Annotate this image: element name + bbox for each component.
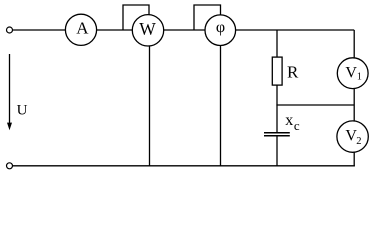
svg-text:x: x xyxy=(285,112,293,129)
svg-text:φ: φ xyxy=(216,19,225,36)
wire bottom bus xyxy=(13,165,355,167)
voltmeter V1 xyxy=(337,58,368,89)
ammeter A xyxy=(65,14,96,45)
svg-text:1: 1 xyxy=(357,72,362,83)
resistor R xyxy=(272,57,299,85)
voltmeter V2 xyxy=(337,121,368,152)
wire below capacitor xyxy=(276,136,278,166)
wire R-C branch upper segment xyxy=(276,30,278,58)
terminal bottom-left xyxy=(7,163,13,169)
wire middle link between R-Xc node and V1-V2 node xyxy=(276,104,354,106)
wire voltmeter branch xyxy=(353,30,355,166)
svg-text:W: W xyxy=(139,19,156,39)
capacitor Xc xyxy=(264,112,300,136)
svg-text:2: 2 xyxy=(356,136,361,147)
svg-text:c: c xyxy=(294,118,300,133)
wire wattmeter drop to bottom bus xyxy=(149,30,151,166)
wire phase-meter voltage-coil bump xyxy=(194,5,221,30)
wattmeter W xyxy=(132,15,163,46)
wire phase-meter drop to bottom bus xyxy=(220,30,222,166)
wire wattmeter voltage-coil bump xyxy=(123,5,149,30)
voltage arrow U xyxy=(7,54,28,130)
svg-text:U: U xyxy=(17,103,28,119)
svg-text:R: R xyxy=(287,63,299,82)
wire top bus xyxy=(13,29,355,31)
terminal top-left xyxy=(7,27,13,33)
wire R to middle node xyxy=(276,85,278,133)
svg-text:V: V xyxy=(345,64,357,81)
phase meter phi xyxy=(205,15,236,46)
svg-text:A: A xyxy=(76,19,89,38)
